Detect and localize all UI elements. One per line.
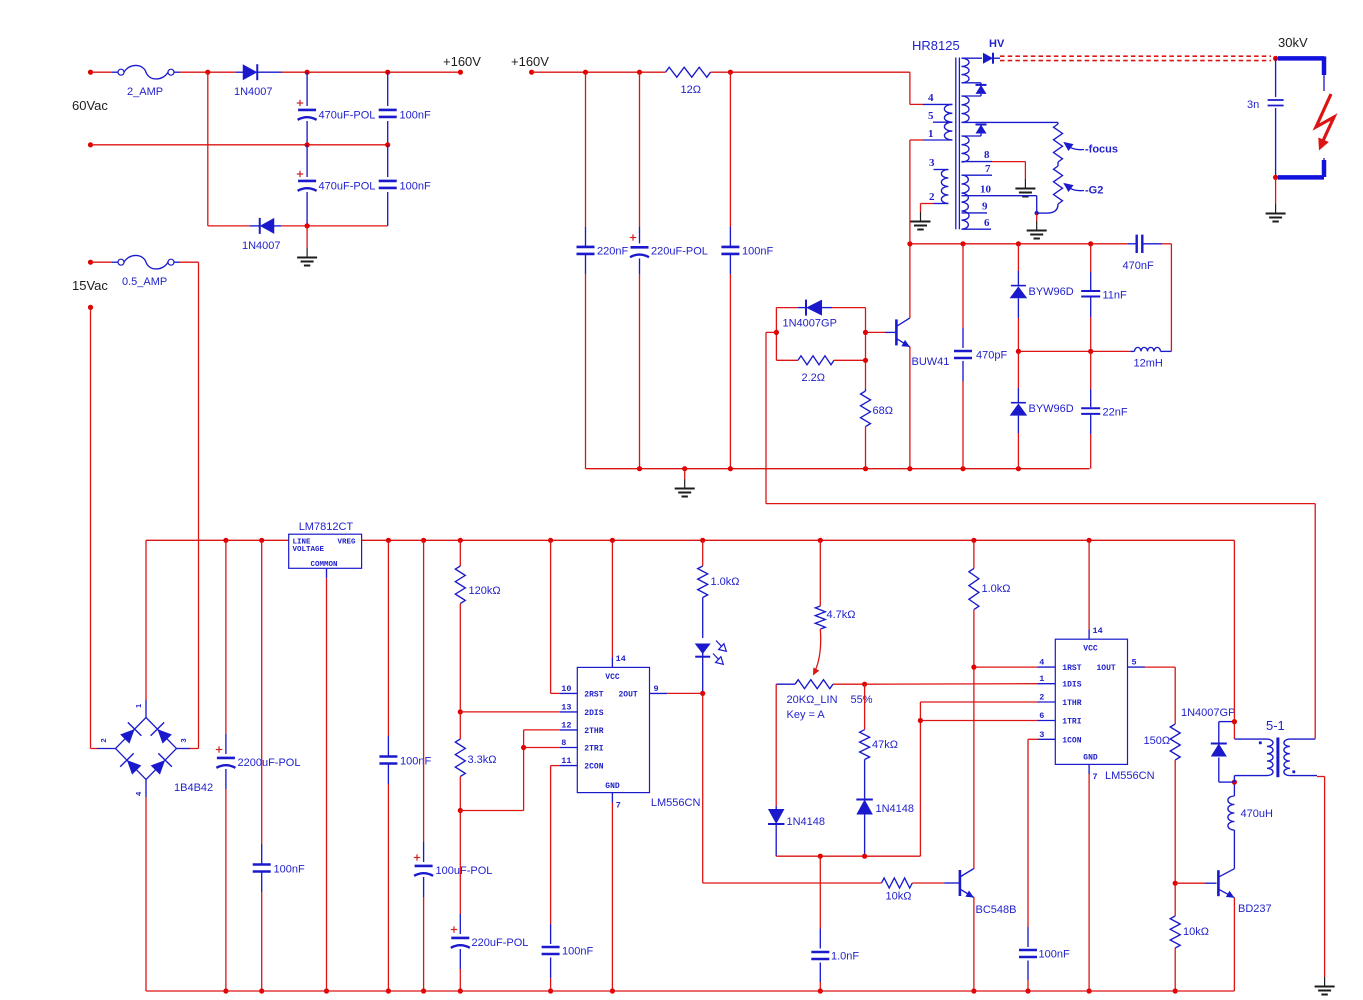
svg-text:2: 2 bbox=[1039, 693, 1044, 703]
svg-text:68Ω: 68Ω bbox=[873, 405, 893, 417]
svg-text:1N4007GP: 1N4007GP bbox=[1181, 707, 1235, 719]
svg-text:8: 8 bbox=[561, 738, 566, 748]
LED bbox=[702, 598, 704, 639]
svg-text:9: 9 bbox=[982, 201, 988, 213]
wire pin 2 to ground bbox=[921, 203, 934, 205]
capacitor 100nF (regulator input) bbox=[261, 540, 263, 844]
svg-text:VOLTAGE: VOLTAGE bbox=[293, 546, 325, 554]
svg-text:47kΩ: 47kΩ bbox=[872, 739, 898, 751]
svg-text:2.2Ω: 2.2Ω bbox=[802, 372, 826, 384]
tap diode upper bbox=[962, 82, 982, 84]
svg-text:3: 3 bbox=[179, 738, 188, 742]
wire bottom return bbox=[208, 225, 250, 227]
svg-text:1N4148: 1N4148 bbox=[787, 816, 826, 828]
inductor 12mH bbox=[1091, 350, 1131, 352]
potentiometer G2 bbox=[1057, 162, 1059, 166]
ground HV return bbox=[1275, 204, 1277, 213]
wire to 2DIS pin 13 bbox=[460, 711, 559, 713]
svg-text:470nF: 470nF bbox=[1123, 260, 1154, 272]
svg-text:120kΩ: 120kΩ bbox=[469, 585, 501, 597]
svg-text:10kΩ: 10kΩ bbox=[886, 891, 912, 903]
HV rectifier diode bbox=[962, 57, 983, 59]
wire tap to focus pot bbox=[981, 121, 1058, 123]
svg-text:220nF: 220nF bbox=[597, 246, 628, 258]
svg-text:470pF: 470pF bbox=[976, 350, 1007, 362]
diode 1N4148 right bbox=[864, 760, 866, 801]
wire base bbox=[866, 331, 886, 333]
svg-text:BUW41: BUW41 bbox=[912, 356, 950, 368]
svg-text:1N4007GP: 1N4007GP bbox=[783, 318, 837, 330]
svg-text:11: 11 bbox=[561, 756, 571, 766]
svg-text:-G2: -G2 bbox=[1085, 185, 1103, 197]
diode BYW96D lower bbox=[1017, 351, 1019, 388]
wire bridge ac stubs bbox=[97, 748, 116, 750]
wire secondary bottom to ground bbox=[1317, 776, 1325, 778]
wire inverter ground bus bbox=[586, 468, 1090, 470]
resistor 1.0kOhm (1RST pullup) bbox=[973, 540, 975, 568]
svg-text:0.5_AMP: 0.5_AMP bbox=[122, 276, 167, 288]
svg-text:14: 14 bbox=[616, 654, 626, 664]
svg-text:5-1: 5-1 bbox=[1266, 718, 1285, 733]
svg-text:1: 1 bbox=[1039, 674, 1044, 684]
capacitor 100uF-POL bbox=[423, 540, 425, 842]
svg-text:3n: 3n bbox=[1247, 99, 1259, 111]
svg-text:1B4B42: 1B4B42 bbox=[174, 782, 213, 794]
node junction snubber top bbox=[1232, 719, 1237, 724]
bridge diode D1 bbox=[118, 722, 141, 745]
transistor BUW41 bbox=[895, 319, 898, 345]
diode 1N4007GP (base loop) bbox=[776, 307, 798, 309]
ground bottom right bbox=[1324, 977, 1326, 986]
wire pot right to 1DIS pin 1 bbox=[865, 683, 1039, 686]
capacitor 100nF (inverter) bbox=[729, 72, 731, 227]
svg-text:1: 1 bbox=[134, 704, 143, 708]
svg-text:GND: GND bbox=[605, 782, 620, 791]
bridge diode D2 bbox=[151, 722, 174, 745]
svg-text:LM556CN: LM556CN bbox=[1105, 770, 1155, 782]
wire pin 10 to G2 ground bbox=[1036, 196, 1038, 213]
resistor 47kOhm bbox=[864, 684, 866, 730]
wire secondary top riser bbox=[1314, 504, 1316, 739]
wire diode bottom bus bbox=[776, 855, 920, 857]
node +160V terminal bbox=[458, 70, 463, 75]
node junction loop left bbox=[774, 330, 779, 335]
svg-text:100nF: 100nF bbox=[400, 756, 431, 768]
fuse 2_AMP bbox=[112, 71, 118, 73]
svg-text:11nF: 11nF bbox=[1103, 290, 1128, 302]
pin 7 GND U1 bbox=[611, 793, 613, 803]
pin 2 1THR bbox=[1038, 701, 1056, 703]
svg-text:15Vac: 15Vac bbox=[72, 278, 108, 293]
wire down to 10k base resistor bbox=[702, 693, 704, 883]
pin 1 1DIS bbox=[1038, 683, 1056, 685]
svg-text:150Ω: 150Ω bbox=[1144, 735, 1171, 747]
pin 12 2THR bbox=[560, 729, 578, 731]
svg-text:6: 6 bbox=[984, 217, 990, 229]
diode 1N4148 left bbox=[775, 806, 777, 810]
pin 14 VCC U2 bbox=[1088, 630, 1090, 640]
svg-text:2OUT: 2OUT bbox=[619, 690, 638, 699]
pin 8 2TRI bbox=[560, 747, 578, 749]
wire loop left bbox=[775, 308, 777, 361]
wire emitter to inverter ground bus bbox=[909, 347, 911, 469]
wire emitter to ground bus bbox=[973, 897, 975, 991]
resistor 120kOhm bbox=[459, 540, 461, 566]
capacitor 22nF bbox=[1090, 351, 1092, 389]
svg-text:3.3kΩ: 3.3kΩ bbox=[468, 754, 497, 766]
wire fuse to bridge bbox=[180, 261, 199, 263]
svg-text:4.7kΩ: 4.7kΩ bbox=[827, 609, 856, 621]
svg-text:HV: HV bbox=[989, 38, 1005, 50]
node 30kV terminal bbox=[1273, 56, 1278, 61]
inductor 470uH bbox=[1233, 830, 1235, 869]
pin 9 stub bbox=[962, 212, 988, 214]
pin 10 lead bbox=[962, 195, 1037, 197]
wire pot left down bbox=[775, 684, 777, 806]
wire +12V rail down to primary bbox=[1233, 540, 1235, 739]
pin 8 lead bbox=[962, 161, 993, 163]
node junction LED/2OUT bbox=[700, 691, 705, 696]
diode BYW96D upper bbox=[1017, 244, 1019, 271]
wire regulator common to ground bus bbox=[326, 568, 328, 578]
svg-text:-focus: -focus bbox=[1085, 144, 1118, 156]
svg-text:100nF: 100nF bbox=[1039, 949, 1070, 961]
svg-text:220uF-POL: 220uF-POL bbox=[472, 937, 529, 949]
svg-text:1.0nF: 1.0nF bbox=[831, 951, 859, 963]
svg-text:1CON: 1CON bbox=[1062, 736, 1081, 745]
wire riser to 1THR/1TRI bbox=[919, 702, 921, 856]
wire bbox=[180, 71, 236, 73]
svg-text:BC548B: BC548B bbox=[976, 904, 1017, 916]
svg-text:2: 2 bbox=[929, 191, 935, 203]
timer IC U2 LM556CN bbox=[1055, 639, 1127, 764]
wire to 2TRI pin 8 bbox=[524, 747, 560, 749]
svg-text:BD237: BD237 bbox=[1238, 903, 1272, 915]
wire stub to drive net bbox=[766, 331, 776, 333]
svg-text:12: 12 bbox=[561, 720, 571, 730]
capacitor 470uF-POL upper bbox=[306, 72, 308, 106]
svg-text:100nF: 100nF bbox=[274, 864, 305, 876]
wire +12V rail bbox=[362, 539, 1235, 541]
svg-text:20KΩ_LIN: 20KΩ_LIN bbox=[787, 694, 838, 706]
aux winding pins 3-2 bbox=[941, 170, 948, 204]
svg-text:COMMON: COMMON bbox=[311, 561, 338, 569]
resistor 10kOhm (BC548 base) bbox=[882, 878, 913, 888]
ground aux winding bbox=[920, 212, 922, 221]
node junction primary bottom bbox=[1232, 780, 1237, 785]
bridge diode D4 bbox=[149, 753, 172, 776]
svg-text:2TRI: 2TRI bbox=[584, 745, 603, 754]
potentiometer 20KOhm_LIN body bbox=[776, 683, 795, 685]
svg-text:5: 5 bbox=[1132, 658, 1137, 668]
pin 7 stub bbox=[962, 174, 993, 176]
node 60Vac input terminal 1 bbox=[88, 70, 93, 75]
svg-text:60Vac: 60Vac bbox=[72, 98, 108, 113]
wire to 1TRI pin 6 bbox=[920, 720, 1038, 722]
wire drive line from BUW41 stage bbox=[766, 503, 1315, 505]
svg-text:1DIS: 1DIS bbox=[1062, 681, 1081, 690]
wire ground bus bottom bbox=[146, 990, 1234, 992]
svg-text:2CON: 2CON bbox=[584, 763, 603, 772]
timer IC U1 LM556CN bbox=[577, 667, 649, 792]
capacitor 3n bbox=[1275, 58, 1277, 97]
svg-text:1N4007: 1N4007 bbox=[234, 86, 273, 98]
svg-text:VCC: VCC bbox=[1083, 645, 1098, 654]
diode 1N4007 top bbox=[236, 71, 244, 73]
wire 1CON to 100nF bbox=[1028, 738, 1039, 740]
pin 3 1CON bbox=[1038, 738, 1056, 740]
tap diode lower bbox=[962, 121, 982, 123]
svg-text:7: 7 bbox=[1093, 772, 1098, 782]
node junction 3.3k bottom bbox=[458, 808, 463, 813]
svg-text:1N4007: 1N4007 bbox=[242, 240, 281, 252]
svg-text:100nF: 100nF bbox=[400, 181, 431, 193]
svg-text:470uF-POL: 470uF-POL bbox=[319, 181, 376, 193]
svg-text:1OUT: 1OUT bbox=[1097, 664, 1116, 673]
node 15Vac terminal 1 bbox=[88, 260, 93, 265]
potentiometer focus bbox=[1057, 122, 1059, 124]
secondary winding bbox=[962, 58, 970, 83]
capacitor 11nF bbox=[1090, 244, 1092, 272]
svg-text:BYW96D: BYW96D bbox=[1029, 403, 1074, 415]
wire to 1THR pin 2 bbox=[920, 701, 1038, 703]
svg-text:220uF-POL: 220uF-POL bbox=[651, 246, 708, 258]
node +160V terminal (inverter) bbox=[529, 70, 534, 75]
svg-text:2THR: 2THR bbox=[584, 727, 603, 736]
focus wiper bbox=[1067, 145, 1085, 150]
capacitor 2200uF-POL bbox=[225, 540, 227, 734]
wire to 1RST pin 4 bbox=[974, 666, 1039, 668]
wire 2CON to 100nF bbox=[551, 765, 560, 767]
wire pin 8 to ground bbox=[992, 161, 1025, 163]
wire 15Vac return to bridge bbox=[90, 307, 92, 748]
transistor BC548B bbox=[959, 870, 962, 896]
wire bridge + to regulator input bbox=[145, 700, 147, 718]
resistor 3.3kOhm bbox=[459, 712, 461, 739]
svg-text:7: 7 bbox=[616, 801, 621, 811]
svg-text:LM7812CT: LM7812CT bbox=[299, 521, 354, 533]
svg-text:2200uF-POL: 2200uF-POL bbox=[238, 757, 301, 769]
wire bbox=[91, 71, 113, 73]
primary winding pins 4-5-1 bbox=[923, 103, 952, 105]
pin 5 stub bbox=[933, 121, 952, 123]
pin 14 VCC U1 bbox=[611, 658, 613, 668]
svg-text:3: 3 bbox=[929, 157, 935, 169]
ground pin10/G2 bbox=[1036, 221, 1038, 230]
wire emitter to bus bbox=[1233, 898, 1235, 991]
pin 4 1RST bbox=[1038, 666, 1056, 668]
wire collector to +160 bus bbox=[909, 244, 911, 318]
svg-text:2: 2 bbox=[99, 738, 108, 742]
svg-text:7: 7 bbox=[985, 163, 991, 175]
svg-text:HR8125: HR8125 bbox=[912, 38, 960, 53]
wire loop right bbox=[865, 308, 867, 389]
diode 1N4007 bottom bbox=[250, 225, 261, 227]
node 15Vac terminal 2 bbox=[88, 305, 93, 310]
wire to ground bbox=[1275, 177, 1277, 204]
potentiometer 20KOhm_LIN wiper bbox=[815, 629, 821, 671]
wire junction to THR/TRI riser bbox=[460, 810, 523, 812]
wire vertical from input junction bbox=[207, 72, 209, 226]
node junction BD237 base bbox=[1173, 881, 1178, 886]
wire rail after 12 ohm bbox=[711, 71, 910, 73]
wire mid rail 60Vac return bbox=[88, 142, 93, 147]
svg-text:2RST: 2RST bbox=[584, 690, 603, 699]
capacitor 100nF (1CON) bbox=[1019, 949, 1037, 952]
svg-text:GND: GND bbox=[1083, 754, 1098, 763]
capacitor 100nF upper bbox=[387, 72, 389, 106]
HV dashed line bbox=[1000, 55, 1271, 57]
node pot right junction bbox=[862, 682, 867, 687]
svg-text:470uH: 470uH bbox=[1241, 808, 1273, 820]
svg-text:1TRI: 1TRI bbox=[1062, 718, 1081, 727]
wire pin 1 down to feedback bus bbox=[909, 140, 911, 244]
wire G2 bottom bbox=[1047, 204, 1058, 213]
svg-text:14: 14 bbox=[1093, 626, 1103, 636]
capacitor 470uF-POL lower bbox=[306, 145, 308, 177]
capacitor 100nF (12V rail) bbox=[387, 540, 389, 736]
resistor 4.7kOhm bbox=[819, 540, 821, 606]
svg-text:+160V: +160V bbox=[511, 54, 549, 69]
ground pin 8 bbox=[1024, 179, 1026, 188]
wire 1.0k to collector bbox=[973, 610, 975, 869]
node junction 2DIS bbox=[458, 709, 463, 714]
svg-text:9: 9 bbox=[654, 684, 659, 694]
svg-text:BYW96D: BYW96D bbox=[1029, 286, 1074, 298]
svg-text:4: 4 bbox=[928, 92, 934, 104]
wire +160V inverter rail bbox=[532, 71, 666, 73]
svg-text:1N4148: 1N4148 bbox=[876, 803, 915, 815]
wire bridge - to ground bus bbox=[145, 780, 147, 798]
svg-text:100nF: 100nF bbox=[400, 110, 431, 122]
node junction TRI bbox=[521, 745, 526, 750]
pin 10 2RST bbox=[560, 692, 578, 694]
capacitor 470pF bbox=[962, 244, 964, 328]
svg-text:10: 10 bbox=[561, 684, 571, 694]
svg-text:6: 6 bbox=[1039, 711, 1044, 721]
wire to 2THR pin 12 bbox=[524, 729, 560, 731]
svg-text:LM556CN: LM556CN bbox=[651, 797, 701, 809]
pin 13 2DIS bbox=[560, 711, 578, 713]
svg-text:10: 10 bbox=[980, 184, 992, 196]
svg-text:470uF-POL: 470uF-POL bbox=[319, 110, 376, 122]
wire 2OUT to LED bbox=[667, 692, 703, 694]
svg-text:55%: 55% bbox=[851, 694, 873, 706]
svg-text:1.0kΩ: 1.0kΩ bbox=[982, 583, 1011, 595]
svg-text:22nF: 22nF bbox=[1103, 407, 1128, 419]
resistor 1.0kOhm (LED) bbox=[702, 540, 704, 566]
svg-text:Key = A: Key = A bbox=[787, 709, 826, 721]
svg-text:VREG: VREG bbox=[338, 539, 357, 547]
ground inverter bbox=[684, 469, 686, 479]
pin 11 2CON bbox=[560, 765, 578, 767]
wire inverter feedback bus bbox=[910, 243, 1128, 245]
svg-text:100uF-POL: 100uF-POL bbox=[436, 865, 493, 877]
wire 2RST riser bbox=[550, 540, 552, 693]
resistor 12Ohm bbox=[666, 67, 711, 77]
svg-text:3: 3 bbox=[1039, 730, 1044, 740]
resistor 150Ohm bbox=[1170, 724, 1180, 760]
capacitor 100nF lower bbox=[387, 145, 389, 177]
svg-text:1THR: 1THR bbox=[1062, 699, 1081, 708]
wire 470nF to 12mH bbox=[1170, 244, 1172, 352]
node spark gap bottom bbox=[1273, 175, 1278, 180]
fuse 0.5_AMP bbox=[112, 261, 118, 263]
spark gap electrodes bbox=[1278, 56, 1324, 61]
G2 wiper bbox=[1067, 186, 1085, 191]
svg-text:+160V: +160V bbox=[443, 54, 481, 69]
svg-text:2_AMP: 2_AMP bbox=[127, 86, 163, 98]
node junction bbox=[205, 70, 210, 75]
svg-text:1.0kΩ: 1.0kΩ bbox=[711, 576, 740, 588]
wire 1OUT to 150 ohm bbox=[1145, 666, 1176, 668]
voltage regulator LM7812CT bbox=[289, 534, 362, 568]
capacitor 220uF-POL (timing) bbox=[459, 811, 461, 915]
bridge rectifier 1B4B42 bbox=[116, 718, 177, 780]
pin 1 lead bbox=[910, 139, 923, 141]
resistor 10kOhm (BD237 base) bbox=[1174, 883, 1176, 916]
svg-text:5: 5 bbox=[928, 110, 934, 122]
node junction 1RST bbox=[971, 665, 976, 670]
svg-text:1RST: 1RST bbox=[1062, 664, 1081, 673]
svg-text:13: 13 bbox=[561, 702, 571, 712]
pin 5 1OUT bbox=[1128, 666, 1146, 668]
diode 1N4007GP (snubber) bbox=[1219, 721, 1235, 723]
pin 7 GND U2 bbox=[1088, 764, 1090, 774]
svg-text:100nF: 100nF bbox=[742, 246, 773, 258]
pin 6 stub bbox=[962, 228, 992, 230]
capacitor 470nF bbox=[1128, 243, 1137, 245]
capacitor 220nF bbox=[585, 72, 587, 227]
resistor 2.2Ohm bbox=[776, 359, 798, 361]
capacitor 1.0nF bbox=[819, 856, 821, 928]
capacitor 220uF-POL bbox=[639, 72, 641, 227]
svg-text:30kV: 30kV bbox=[1278, 35, 1308, 50]
svg-text:8: 8 bbox=[984, 149, 990, 161]
wire +160V rail left bbox=[282, 71, 460, 73]
ground top-left bbox=[306, 226, 308, 248]
transistor BD237 bbox=[1217, 870, 1220, 896]
svg-text:VCC: VCC bbox=[605, 673, 620, 682]
svg-text:10kΩ: 10kΩ bbox=[1183, 926, 1209, 938]
svg-text:100nF: 100nF bbox=[562, 946, 593, 958]
resistor 68Ohm bbox=[865, 389, 867, 391]
bridge diode D3 bbox=[120, 753, 143, 776]
wire resonant node bbox=[1018, 350, 1090, 352]
wire base bbox=[1175, 882, 1205, 884]
pin 6 1TRI bbox=[1038, 720, 1056, 722]
capacitor 100nF (2CON) bbox=[542, 946, 560, 949]
svg-text:4: 4 bbox=[1039, 658, 1044, 668]
svg-text:12Ω: 12Ω bbox=[681, 84, 701, 96]
spark arc bbox=[1316, 94, 1334, 143]
wire +160V to pin 4 bbox=[909, 72, 911, 104]
pin 9 2OUT bbox=[650, 692, 668, 694]
svg-text:2DIS: 2DIS bbox=[584, 709, 603, 718]
svg-text:12mH: 12mH bbox=[1134, 358, 1163, 370]
node junction 1TRI bbox=[918, 718, 923, 723]
svg-text:1: 1 bbox=[928, 128, 934, 140]
